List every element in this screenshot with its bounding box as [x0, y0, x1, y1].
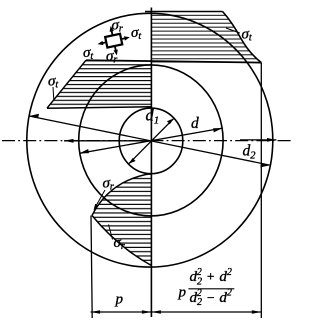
- stress element rectangle: [94, 23, 133, 59]
- right extension line: [260, 63, 262, 318]
- svg-text:d2: d2: [243, 143, 257, 162]
- shaft sigma-t bottom edge: [47, 107, 151, 108]
- shaft sigma-t slant edge: [47, 60, 86, 108]
- sigma-r hub curve: [92, 216, 151, 266]
- svg-text:σr: σr: [103, 176, 114, 193]
- dimension line with arrows: [91, 310, 262, 314]
- horizontal dash-dot centerline: [2, 140, 292, 142]
- top edge line: [145, 11, 223, 13]
- svg-text:d: d: [191, 115, 199, 132]
- sigma-t hub curve (right boundary): [223, 12, 262, 63]
- svg-text:p: p: [115, 292, 124, 308]
- p extension line (left): [91, 216, 92, 319]
- svg-text:d22+d2: d22+d2: [190, 267, 232, 288]
- outer circle d2: [27, 13, 273, 267]
- top-right hatch region (sigma-t hub distribution): [151, 12, 261, 63]
- formula p(d2^2+d^2)/(d2^2-d^2): [178, 267, 235, 308]
- middle circle d: [79, 65, 223, 216]
- d diameter arrow: [80, 128, 223, 153]
- d2 diameter arrow: [29, 114, 270, 168]
- horizontal left radius arrow: [64, 139, 151, 143]
- vertical centerline / extension: [150, 8, 152, 318]
- small right arrow on centerline: [240, 138, 277, 142]
- sigma-r shaft curve: [92, 174, 151, 216]
- svg-text:σt: σt: [242, 27, 252, 44]
- shared fit-surface line: [86, 60, 261, 62]
- bottom-left hatch region (sigma-r distribution): [92, 174, 151, 266]
- d1 diameter arrow: [129, 118, 174, 163]
- svg-text:σr: σr: [112, 18, 123, 35]
- svg-text:p: p: [178, 285, 187, 301]
- element arrows: [94, 23, 133, 59]
- svg-text:σt: σt: [83, 45, 93, 62]
- svg-text:σt: σt: [131, 25, 141, 42]
- inner circle d1: [119, 108, 183, 174]
- top-left hatch region (sigma-t shaft distribution): [47, 60, 151, 108]
- svg-text:d22−d2: d22−d2: [190, 288, 232, 309]
